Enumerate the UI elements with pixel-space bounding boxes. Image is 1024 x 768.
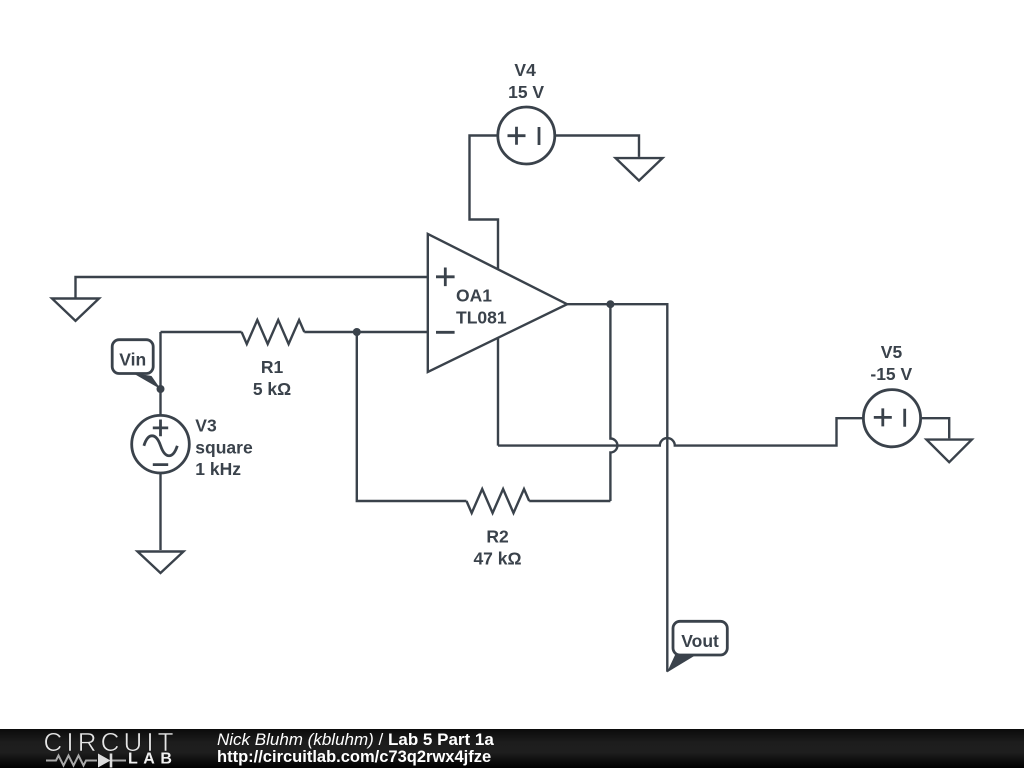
footer url line xyxy=(217,748,491,766)
logo CIRCUIT xyxy=(44,727,178,757)
node output xyxy=(606,300,614,308)
wire V4 right lead xyxy=(555,136,639,157)
svg-text:TL081: TL081 xyxy=(456,308,507,328)
ground (V5) xyxy=(927,440,972,463)
svg-text:R2: R2 xyxy=(486,527,509,547)
wire R1 to - input xyxy=(304,331,428,333)
svg-text:-15 V: -15 V xyxy=(870,364,912,384)
svg-text:47 kΩ: 47 kΩ xyxy=(473,548,521,568)
voltage source V5 xyxy=(863,390,920,447)
ground (V3) xyxy=(138,552,184,574)
footer bar xyxy=(0,729,1024,768)
footer title line xyxy=(217,730,494,749)
label V3 value xyxy=(195,416,253,480)
label V5 value xyxy=(870,342,912,384)
svg-text:http://circuitlab.com/c73q2rwx: http://circuitlab.com/c73q2rwx4jfze xyxy=(217,748,491,766)
wire V3 to ground xyxy=(159,473,161,550)
wire output of op-amp xyxy=(567,304,667,672)
svg-text:Nick Bluhm (kbluhm) / Lab 5 Pa: Nick Bluhm (kbluhm) / Lab 5 Part 1a xyxy=(217,730,494,749)
voltage source V4 xyxy=(498,107,555,164)
svg-text:Vin: Vin xyxy=(119,349,146,369)
flag Vout xyxy=(667,621,727,672)
node Vin xyxy=(157,385,165,393)
svg-text:V4: V4 xyxy=(514,60,536,80)
node junction (feedback tap) xyxy=(353,328,361,336)
svg-text:5 kΩ: 5 kΩ xyxy=(253,379,291,399)
logo resistor-diode glyph xyxy=(46,754,126,768)
svg-text:V5: V5 xyxy=(881,342,903,362)
svg-text:OA1: OA1 xyxy=(456,286,492,306)
label R2 value xyxy=(473,527,521,569)
ground (V4) xyxy=(616,158,663,181)
wire feedback horizontal to R2 xyxy=(529,500,610,502)
wire V5 right lead xyxy=(921,418,950,438)
svg-text:R1: R1 xyxy=(261,357,284,377)
svg-text:square: square xyxy=(195,437,253,457)
op-amp U1 OA1 TL081 xyxy=(428,234,567,372)
svg-text:Vout: Vout xyxy=(681,631,719,651)
wire op-amp V- pin down xyxy=(497,338,499,446)
ground (noninverting input) xyxy=(52,299,99,321)
wire Vin node to R1 xyxy=(161,331,242,333)
wire V4 left lead to op-amp V+ pin xyxy=(470,136,499,269)
wire V3 to Vin node xyxy=(159,332,161,416)
svg-text:LAB: LAB xyxy=(128,751,177,768)
logo LAB xyxy=(128,751,177,768)
resistor R1 xyxy=(242,320,305,344)
wire V- rail to V5 (with hop over Vout wire) xyxy=(498,418,863,445)
flag Vin xyxy=(112,340,161,390)
label R1 value xyxy=(253,357,291,399)
wire feedback vertical (with hop) xyxy=(610,304,617,501)
svg-text:V3: V3 xyxy=(195,416,217,436)
svg-text:1 kHz: 1 kHz xyxy=(195,459,241,479)
svg-text:15 V: 15 V xyxy=(508,82,544,102)
resistor R2 xyxy=(467,489,530,513)
wire R2 to inverting node xyxy=(357,332,467,501)
label V4 value xyxy=(508,60,544,102)
wire to + input xyxy=(76,277,428,299)
voltage source V3 xyxy=(132,415,190,473)
